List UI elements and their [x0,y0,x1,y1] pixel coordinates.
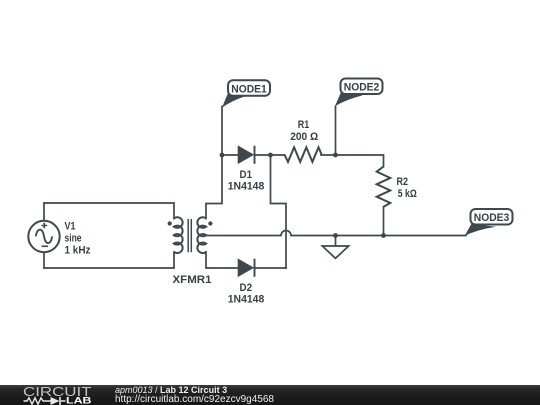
wire: D2 cathode lead [255,267,287,269]
wire: R1 right lead to NODE2 junction [321,154,336,156]
svg-text:D1: D1 [240,169,253,181]
svg-text:NODE3: NODE3 [474,212,510,224]
wire: D1 cathode to node [255,154,285,156]
label R2 [397,176,417,200]
wire: V1 top lead [43,203,45,220]
secondary winding [197,217,206,253]
svg-text:V1: V1 [65,221,76,233]
footer bar [0,385,540,405]
node NODE3 callout [465,209,513,236]
svg-text:R1: R1 [298,119,310,131]
svg-text:1N4148: 1N4148 [228,294,265,306]
svg-text:NODE1: NODE1 [231,83,267,95]
svg-text:LAB: LAB [66,396,92,405]
label D1 [228,169,265,193]
svg-text:NODE2: NODE2 [344,82,380,94]
diode D2 [238,259,254,277]
junction node: D1 cathode / output [268,153,273,158]
svg-text:R2: R2 [397,176,409,188]
ground [322,246,348,258]
wire: jog from D1 cathode node down to D2 cathode [271,155,287,268]
wire: V1 bottom lead [43,253,45,268]
logo diode [51,397,60,405]
wire: ground stub [335,236,337,246]
polarity dot primary [168,221,172,225]
label V1 [65,221,91,257]
wire: XFMR1 secondary top jog up to D1 anode node [206,107,222,219]
wire: top horizontal V1 to XFMR1 primary [44,203,174,219]
polarity dot secondary [208,221,212,225]
junction node: R2 bottom [381,233,386,238]
wire: bottom horizontal V1 to XFMR1 primary [44,252,174,268]
svg-text:1 kHz: 1 kHz [65,245,91,257]
node NODE1 callout [222,80,270,107]
svg-text:sine: sine [65,233,82,245]
label D2 [228,282,265,306]
wire: R2 bottom lead [383,207,385,236]
transformer XFMR1 [174,217,206,253]
node NODE2 callout [335,79,383,107]
svg-text:200 Ω: 200 Ω [290,131,318,143]
junction node: D1 anode [220,153,225,158]
junction node: ground tap [333,233,338,238]
wire: NODE2 vertical drop [335,107,337,156]
label R1 [290,119,318,143]
junction node: NODE2 [333,153,338,158]
core lines [188,219,191,252]
svg-text:D2: D2 [240,282,253,294]
voltage source V1 [28,221,59,252]
svg-text:5 kΩ: 5 kΩ [398,188,417,200]
svg-text:1N4148: 1N4148 [228,181,265,193]
wire: D1 anode lead [222,154,238,156]
resistor R1 [285,147,322,162]
resistor R2 [377,167,391,207]
wire: XFMR1 secondary bottom lead to D2 anode [206,252,238,268]
wire: NODE2 junction to R2 top [336,155,384,167]
primary winding [174,217,183,253]
diode D1 [238,146,254,164]
svg-text:XFMR1: XFMR1 [173,274,212,286]
wire: center tap with hop over vertical wire [206,231,466,236]
logo resistor squiggle [24,398,66,404]
logo CIRCUIT LAB [0,385,110,405]
